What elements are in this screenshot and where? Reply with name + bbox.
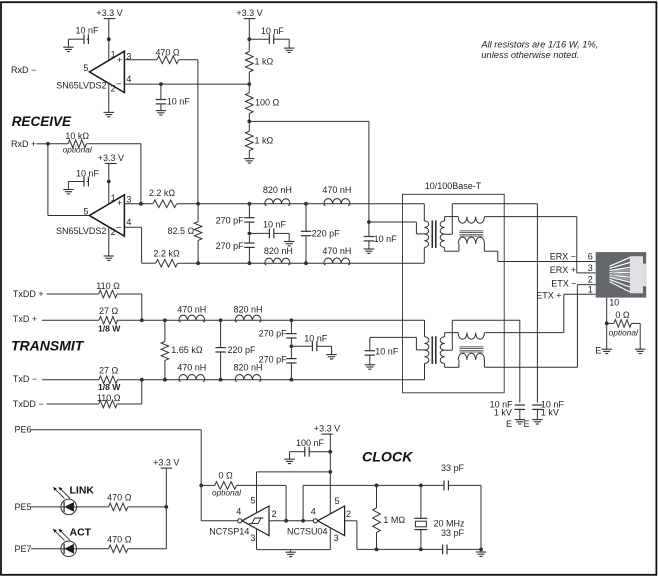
svg-text:+3.3 V: +3.3 V (98, 153, 124, 163)
wire osc top rail (303, 484, 444, 486)
svg-text:100 nF: 100 nF (296, 438, 325, 448)
svg-text:6: 6 (588, 251, 593, 261)
ground (285, 550, 295, 557)
capacitor 270 pF tx lower (259, 348, 297, 379)
wire ETX+ path (484, 294, 595, 332)
svg-text:470 nH: 470 nH (322, 246, 351, 256)
svg-text:820 nH: 820 nH (264, 246, 293, 256)
pin 4 label (126, 217, 131, 227)
svg-text:10/100Base-T: 10/100Base-T (425, 181, 482, 191)
wire (179, 59, 198, 61)
svg-text:4: 4 (126, 74, 131, 84)
resistor 27 ohm lower (98, 366, 121, 393)
port PE6 (15, 425, 202, 486)
note text (480, 40, 598, 61)
svg-text:4: 4 (236, 507, 241, 517)
svg-text:TRANSMIT: TRANSMIT (11, 337, 85, 353)
resistor 2.2 kohm upper (124, 188, 176, 208)
choke L1 lower winding (458, 237, 484, 244)
svg-text:82.5 Ω: 82.5 Ω (168, 226, 195, 236)
inductor 820 nH rx lower (264, 246, 293, 265)
node dot (199, 484, 203, 488)
svg-text:E: E (595, 345, 601, 355)
resistor 2.2 kohm lower (142, 249, 180, 268)
node dot (46, 142, 50, 146)
LED D2 ACT (53, 529, 77, 557)
choke L2 lower winding (458, 353, 484, 360)
svg-text:820 nH: 820 nH (233, 362, 262, 372)
pin 5 stub (250, 472, 256, 513)
svg-text:2: 2 (588, 275, 593, 285)
resistor 1.65 kohm (161, 320, 203, 379)
node dot (159, 82, 163, 86)
choke L2 core (459, 347, 483, 352)
svg-text:1: 1 (588, 284, 593, 294)
svg-text:SN65LVDS2: SN65LVDS2 (56, 81, 106, 91)
label ACT (70, 526, 92, 538)
resistor 27 ohm upper (98, 306, 121, 334)
svg-text:TxDD +: TxDD + (13, 289, 44, 299)
svg-text:2: 2 (111, 227, 116, 237)
node dot (304, 261, 308, 265)
svg-text:10 nF: 10 nF (374, 234, 398, 244)
svg-text:ETX +: ETX + (536, 290, 561, 300)
svg-text:470 nH: 470 nH (177, 304, 206, 314)
svg-text:−: − (116, 79, 122, 90)
svg-text:TxD +: TxD + (13, 314, 37, 324)
svg-text:470 nH: 470 nH (322, 185, 351, 195)
capacitor 220 pF rx (301, 204, 340, 263)
svg-text:470 Ω: 470 Ω (107, 493, 132, 503)
capacitor 270 pF rx upper (216, 204, 255, 231)
capacitor C 10 nF B (156, 84, 191, 111)
inductor 820 nH tx lower (233, 362, 262, 381)
wire secondary bottom (445, 244, 459, 251)
node dot (290, 378, 294, 382)
power +3.3V supply E (153, 458, 179, 549)
svg-text:27 Ω: 27 Ω (99, 366, 119, 376)
label U2 (56, 226, 106, 236)
resistor 82.5 ohm (168, 204, 202, 263)
node dot (328, 470, 332, 474)
svg-text:ERX +: ERX + (550, 265, 576, 275)
capacitor 220 pF tx (215, 320, 256, 379)
svg-text:SN65LVDS2: SN65LVDS2 (56, 226, 106, 236)
svg-text:TxD −: TxD − (13, 374, 37, 384)
resistor 1 kohm upper (246, 52, 274, 73)
power +3.3V supply D (314, 424, 340, 514)
node dot (247, 37, 251, 41)
svg-text:optional: optional (63, 145, 93, 155)
node dot (219, 378, 223, 382)
inverter U4 NC7SU04 (313, 506, 344, 536)
inductor 470 nH rx upper (322, 185, 351, 206)
svg-text:10 nF: 10 nF (375, 347, 399, 357)
wire pin4 (124, 83, 249, 85)
svg-text:270 pF: 270 pF (259, 354, 288, 364)
node dot (140, 318, 144, 322)
op-amp U1 SN65LVDS2 (89, 51, 124, 92)
capacitor 270 pF rx lower (216, 236, 255, 264)
svg-text:−: − (116, 222, 122, 233)
svg-text:3: 3 (588, 263, 593, 273)
resistor 470 ohm LINK (77, 493, 132, 511)
capacitor C 10 nF C (249, 26, 289, 48)
svg-text:1 MΩ: 1 MΩ (383, 515, 405, 525)
earth ground E (595, 345, 612, 355)
inductor 470 nH tx upper (177, 304, 206, 322)
capacitor 10 nF tx mid (291, 333, 331, 354)
LED D1 LINK (53, 487, 77, 515)
svg-text:All resistors are 1/16 W, 1%,: All resistors are 1/16 W, 1%, (480, 40, 598, 50)
svg-text:5: 5 (250, 495, 255, 505)
svg-text:270 pF: 270 pF (259, 329, 288, 339)
capacitor 10 nF ct tx (365, 337, 399, 364)
wire pin4 to lower (124, 227, 141, 263)
pin 1 label (588, 284, 593, 294)
svg-text:2: 2 (111, 84, 116, 94)
pin 2 stub (109, 83, 116, 112)
svg-text:5: 5 (83, 206, 88, 216)
wire rx+ filter (177, 203, 425, 205)
node dot (375, 548, 379, 552)
node dot (301, 519, 305, 523)
svg-text:820 nH: 820 nH (263, 185, 292, 195)
svg-text:PE5: PE5 (15, 502, 32, 512)
svg-text:0 Ω: 0 Ω (615, 310, 630, 320)
svg-text:NC7SU04: NC7SU04 (287, 526, 328, 536)
pin 2 label (588, 275, 593, 285)
svg-text:0 Ω: 0 Ω (218, 471, 233, 481)
wire secondary bottom tx (445, 360, 459, 367)
net label ETX+ (536, 290, 561, 300)
node dot (328, 450, 332, 454)
wire (248, 72, 250, 93)
capacitor 33 pF upper (441, 463, 481, 549)
inductor 820 nH tx upper (233, 304, 262, 322)
wire (108, 39, 110, 60)
port TxDD- (13, 399, 99, 409)
svg-text:470 Ω: 470 Ω (107, 535, 132, 545)
ground (104, 256, 114, 260)
pin 2 stub (109, 227, 116, 256)
pin 5 label (83, 206, 88, 216)
svg-text:optional: optional (609, 328, 639, 338)
transformer T1 core (432, 220, 436, 248)
svg-text:820 nH: 820 nH (233, 304, 262, 314)
svg-text:2.2 kΩ: 2.2 kΩ (149, 188, 176, 198)
section label CLOCK (362, 449, 414, 465)
capacitor C 10 nF bypass A (68, 26, 99, 48)
wire (128, 548, 167, 550)
label U1 (56, 81, 106, 91)
inductor 470 nH tx lower (177, 362, 206, 381)
wire (86, 144, 140, 204)
node dot (290, 344, 294, 348)
svg-text:PE6: PE6 (15, 425, 32, 435)
ground (284, 48, 294, 52)
choke L1 core (459, 231, 483, 236)
wire U3-U4 (269, 520, 313, 522)
node dot (248, 232, 252, 236)
svg-text:10: 10 (609, 298, 619, 308)
capacitor 10 nF rx mid (249, 219, 289, 241)
ground (244, 159, 254, 163)
wire (128, 506, 167, 508)
ground (365, 365, 375, 369)
svg-text:1 kΩ: 1 kΩ (255, 56, 274, 66)
wire (117, 294, 142, 320)
transformer T2 secondary winding (440, 337, 444, 364)
pin 4 label (126, 74, 131, 84)
wire T2 secondary center tap (445, 320, 520, 402)
crystal Y1 20 MHz (414, 485, 465, 549)
node dot (247, 82, 251, 86)
label U4 (287, 526, 328, 536)
node dot (107, 37, 111, 41)
wire (423, 247, 425, 263)
pin 2 label (346, 509, 351, 519)
pin 3 stub (250, 529, 256, 550)
port RxD+ (11, 139, 48, 149)
node dot (163, 318, 167, 322)
svg-text:1.65 kΩ: 1.65 kΩ (171, 345, 203, 355)
capacitor 270 pF tx upper (259, 320, 297, 344)
node dot (248, 202, 252, 206)
svg-text:LINK: LINK (70, 484, 95, 496)
node dot (248, 261, 252, 265)
svg-text:1/8 W: 1/8 W (98, 382, 121, 392)
svg-text:470 Ω: 470 Ω (155, 47, 180, 57)
node dot (284, 519, 288, 523)
svg-text:10 nF: 10 nF (76, 168, 100, 178)
wire center-tap feed (249, 121, 369, 222)
port PE5 (15, 502, 61, 512)
ground (63, 190, 73, 194)
svg-text:2: 2 (272, 509, 277, 519)
wire osc bottom rail (357, 548, 443, 550)
node dot (164, 505, 168, 509)
power +3.3V supply A (96, 8, 122, 39)
pin 5 label (335, 496, 340, 506)
capacitor C 10 nF D (68, 168, 99, 189)
wire (606, 323, 608, 349)
node dot (139, 202, 143, 206)
wire secondary top (445, 217, 459, 221)
svg-text:10 nF: 10 nF (263, 219, 287, 229)
resistor 0 ohm optional clk (201, 471, 242, 498)
choke L2 upper winding (458, 333, 484, 340)
node dot (479, 548, 483, 552)
ground (284, 459, 294, 463)
node dot (419, 484, 423, 488)
pin 3 label (588, 263, 593, 273)
node dot (163, 378, 167, 382)
wire (197, 60, 199, 204)
wire (248, 114, 250, 132)
svg-text:1/8 W: 1/8 W (98, 324, 121, 334)
section label RECEIVE (12, 114, 72, 129)
inverter U3 NC7SP14 (238, 506, 269, 536)
wire tx+ filter (117, 319, 425, 321)
svg-text:+: + (117, 198, 123, 209)
svg-text:unless otherwise noted.: unless otherwise noted. (481, 50, 579, 60)
wire T2 center tap (370, 337, 426, 350)
svg-text:E: E (506, 419, 512, 429)
svg-text:ERX −: ERX − (550, 251, 576, 261)
svg-text:3: 3 (126, 195, 131, 205)
svg-text:10 nF: 10 nF (76, 26, 100, 36)
connector J1 RJ-45 jack (596, 252, 647, 298)
svg-text:4: 4 (311, 507, 316, 517)
svg-text:110 Ω: 110 Ω (97, 393, 121, 403)
wire gnd (257, 549, 331, 551)
svg-text:1 kV: 1 kV (494, 407, 512, 417)
svg-text:2.2 kΩ: 2.2 kΩ (153, 249, 180, 259)
resistor 110 ohm lower (97, 393, 121, 408)
svg-text:RECEIVE: RECEIVE (12, 114, 72, 129)
svg-text:10 nF: 10 nF (261, 26, 285, 36)
svg-text:4: 4 (126, 217, 131, 227)
resistor 470 ohm (124, 47, 179, 63)
svg-text:3: 3 (334, 533, 339, 543)
svg-text:10 nF: 10 nF (304, 333, 328, 343)
pin 3 label (126, 195, 131, 205)
wire U3 output (201, 485, 237, 520)
svg-text:10 nF: 10 nF (167, 97, 191, 107)
section label TRANSMIT (11, 337, 85, 353)
svg-text:+3.3 V: +3.3 V (314, 424, 340, 434)
node dot (140, 378, 144, 382)
wire center tap (369, 222, 426, 234)
capacitor 10 nF 1 kV left (490, 399, 525, 419)
wire T1 secondary center tap (445, 204, 538, 403)
svg-text:E: E (523, 419, 529, 429)
node dot (107, 180, 111, 184)
svg-text:optional: optional (212, 487, 242, 497)
wire (302, 485, 304, 520)
pin 5 label (83, 63, 88, 73)
resistor 10 kohm optional (48, 131, 93, 154)
transformer T2 primary winding (425, 337, 429, 364)
earth ground E (506, 419, 525, 429)
svg-text:220 pF: 220 pF (228, 345, 257, 355)
node dot (375, 484, 379, 488)
inductor 470 nH rx lower (322, 246, 351, 265)
wire tx- filter (118, 379, 425, 381)
svg-text:RxD +: RxD + (11, 139, 36, 149)
ground (284, 242, 294, 246)
port PE7 (15, 544, 61, 554)
svg-text:270 pF: 270 pF (216, 241, 245, 251)
svg-text:5: 5 (335, 496, 340, 506)
svg-text:100 Ω: 100 Ω (255, 98, 280, 108)
net label ERX+ (550, 265, 576, 275)
wire U4 input (345, 521, 357, 550)
wire rx- filter (178, 262, 425, 264)
resistor 470 ohm ACT (77, 535, 132, 553)
svg-text:ETX −: ETX − (551, 278, 576, 288)
pin 1 label (111, 193, 116, 203)
transformer T2 core (432, 336, 436, 364)
svg-text:20 MHz: 20 MHz (434, 518, 466, 528)
pin 3 stub (330, 528, 338, 550)
svg-text:1: 1 (111, 50, 116, 60)
capacitor 100 nF (290, 438, 331, 459)
svg-text:220 pF: 220 pF (312, 229, 341, 239)
svg-text:+3.3 V: +3.3 V (96, 8, 122, 18)
port RxD- (11, 65, 36, 75)
svg-text:33 pF: 33 pF (441, 463, 465, 473)
earth ground E (523, 419, 542, 429)
svg-text:+3.3 V: +3.3 V (236, 8, 262, 18)
ground (156, 111, 166, 115)
choke L1 upper winding (458, 217, 484, 224)
resistor 110 ohm upper (96, 281, 120, 298)
transformer T1 secondary winding (440, 221, 444, 247)
port TxD+ (13, 314, 99, 324)
port TxDD+ (13, 289, 99, 299)
wire (424, 363, 426, 379)
node dot (219, 318, 223, 322)
wire ERX+ path (484, 217, 595, 273)
svg-text:1 kΩ: 1 kΩ (255, 136, 274, 146)
pin 1 label (111, 50, 116, 60)
wire (237, 485, 287, 520)
wire (248, 151, 250, 159)
svg-text:+3.3 V: +3.3 V (153, 458, 179, 468)
pin 4 label (311, 507, 316, 517)
power +3.3V supply B (236, 8, 262, 52)
svg-text:27 Ω: 27 Ω (99, 306, 119, 316)
svg-text:RxD −: RxD − (11, 65, 36, 75)
node dot (247, 120, 251, 124)
wire secondary top tx (445, 333, 459, 337)
wire pin5s (257, 471, 331, 473)
resistor 100 ohm (246, 93, 280, 114)
wire ERX- path (484, 244, 595, 262)
power +3.3V supply C (98, 153, 124, 204)
svg-text:+: + (117, 55, 123, 66)
svg-text:5: 5 (83, 63, 88, 73)
node dot (290, 318, 294, 322)
net label ETX- (551, 278, 576, 288)
wire (424, 320, 426, 337)
node dot (367, 220, 371, 224)
node dot (304, 202, 308, 206)
capacitor 10 nF ct rx (364, 222, 397, 249)
ground (364, 249, 374, 253)
pin 6 label (588, 251, 593, 261)
capacitor 33 pF lower (441, 528, 481, 554)
ground (63, 47, 73, 51)
transformer T1 primary winding (424, 221, 428, 247)
svg-text:TxDD −: TxDD − (13, 399, 44, 409)
svg-text:PE7: PE7 (15, 544, 32, 554)
node dot (419, 548, 423, 552)
ground (476, 549, 486, 556)
pin 2 label (272, 509, 277, 519)
ground (635, 349, 645, 353)
svg-text:33 pF: 33 pF (441, 528, 465, 538)
node dot (605, 322, 609, 326)
port TxD- (13, 374, 99, 384)
pin 3 label (126, 51, 131, 61)
ground (104, 112, 114, 116)
svg-text:110 Ω: 110 Ω (96, 281, 120, 291)
svg-text:CLOCK: CLOCK (362, 449, 414, 465)
wire (117, 380, 142, 404)
